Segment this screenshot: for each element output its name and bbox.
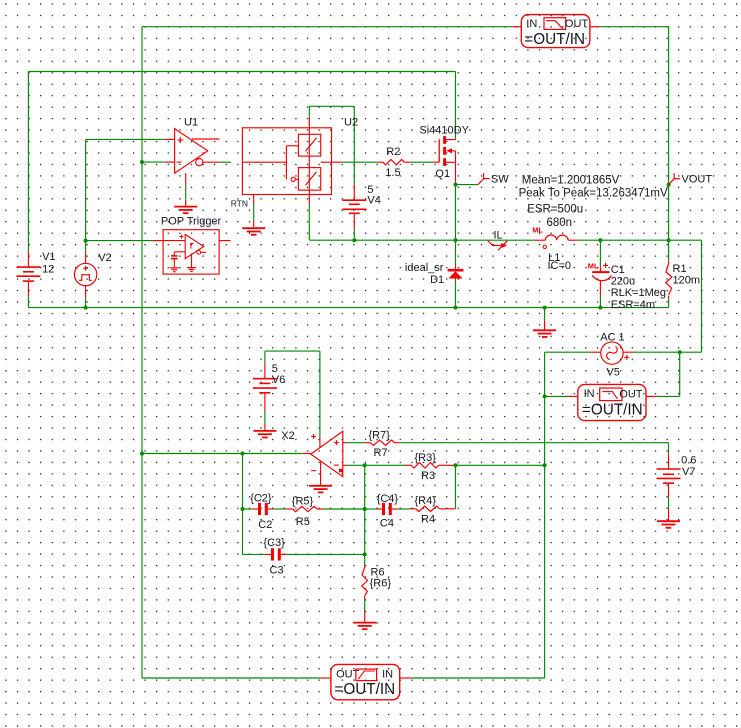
node C1 bottom junction [598,306,602,310]
ac source V5 lead right [623,351,634,353]
svg-text:Q1: Q1 [435,168,450,180]
label X2 [281,430,294,442]
svg-text:1.5: 1.5 [385,167,400,179]
label IL [494,230,503,242]
label R7 [374,447,388,459]
node X2 -input junction [363,463,367,467]
capacitor C2 leads [253,508,274,510]
label C1 [611,264,625,276]
transistor Q1 channel bar mid [443,147,446,155]
label {C2} [250,493,272,505]
svg-text:IN: IN [584,388,595,400]
svg-text:=OUT/IN: =OUT/IN [524,31,585,48]
svg-text:680n: 680n [547,217,573,229]
op-amp U1 top output stub [192,138,220,140]
svg-text:RTN: RTN [231,198,248,208]
label R5 [296,516,310,528]
label V7 [682,466,695,478]
svg-text:=OUT/IN: =OUT/IN [334,681,395,698]
ground rail stub [544,308,546,331]
transistor Q1 channel bar top [443,136,446,144]
label {R4} [415,495,437,507]
wire R2 to Q1 gate [410,161,432,163]
probe bottom icon [356,669,377,681]
capacitor C1 arc [592,275,611,280]
svg-text:{C3}: {C3} [263,537,285,549]
resistor R4 [416,506,440,511]
node C2 row left junction [241,507,245,511]
svg-text:R2: R2 [386,146,400,158]
wire D1 lower lead [455,281,457,308]
wire C4 row [365,508,409,510]
label C2 [258,519,272,531]
label {R5} [292,496,314,508]
svg-text:U1: U1 [184,116,198,128]
wire V6 top link [265,351,320,363]
wire X2 -in to node [347,464,365,466]
wire C1 bottom lead [599,296,601,308]
probe bottom label OUT [336,669,360,681]
probe pin VOUT [669,173,681,184]
POP trigger box [163,230,219,274]
switch block U2 box [242,128,331,195]
resistor R3 lead left [405,464,411,466]
POP trigger output bubble [197,250,201,254]
wire R6 bottom lead [364,596,366,623]
voltage source V2 pulse glyph [79,275,92,281]
op-amp U1 plus mark [177,137,183,143]
svg-text:{C2}: {C2} [250,493,272,505]
wire D1 upper lead [455,240,457,264]
node V4 bottom junction [352,238,356,242]
wire U2 pole down [309,205,354,241]
wire input rail y=71.5 [28,71,455,73]
svg-text:R4: R4 [421,513,435,525]
op-amp X2 supply minus mark [311,470,316,472]
op-amp U1 minus mark [177,161,182,163]
svg-text:C2: C2 [258,519,272,531]
label POP Trigger [161,216,222,228]
svg-text:=OUT/IN: =OUT/IN [582,401,643,418]
resistor R3 [411,463,438,468]
transistor Q1 source lead [455,162,457,182]
op-amp X2 supply stub red [319,437,321,448]
label IC=0 [548,260,572,272]
wire V7 mid lead [668,498,670,509]
svg-text:{R3}: {R3} [415,452,437,464]
probe top label =OUT/IN [524,31,585,48]
wire V7 top lead [668,443,670,454]
svg-text:C3: C3 [270,564,284,576]
svg-text:12: 12 [42,264,54,276]
op-amp U1 triangle [175,129,208,174]
value 220u [611,276,635,288]
svg-text:{R4}: {R4} [415,495,437,507]
capacitor C3 [273,548,280,560]
node C4 row junction [363,507,367,511]
label R2 [386,146,400,158]
wire U1 - input from x=142 [142,161,165,163]
svg-text:V2: V2 [98,252,111,264]
wire bottom probe net y=678 [142,677,545,679]
probe bottom label =OUT/IN [334,681,395,698]
node mid probe in junction [543,394,547,398]
resistor R7 lead right [395,442,400,444]
capacitor C3 leads [265,553,287,555]
svg-text:IN: IN [382,668,393,680]
value RLK=1Meg [611,287,666,299]
capacitor C1 top plate [592,271,609,273]
wire V2 bottom lead [85,297,87,308]
label 5 (V4) [367,184,373,196]
svg-text:Mean=1.2001865V: Mean=1.2001865V [522,174,620,186]
POP trigger output stub [201,251,206,253]
RTN stub [253,195,255,229]
wire V4 bottom lead [353,229,355,240]
ac source V5 sine [605,345,618,361]
wire U2 top link vertical [308,106,310,117]
wire Q1 drain vertical [455,72,457,140]
wire V2 vertical top [85,139,87,251]
label R6 [371,567,385,579]
label R3 [421,470,435,482]
probe box mid (=OUT/IN) [569,384,657,420]
label 0.6 [681,454,696,466]
probe top label IN [526,18,537,30]
voltage source V7 battery [657,469,681,483]
mini ground left in POP trigger [170,268,179,272]
probe pin SW [478,173,490,184]
voltage source V2 lead bottom [85,286,87,297]
wire mid probe right vertical [679,352,681,396]
probe top icon [544,18,566,30]
label C4 [380,518,394,530]
ground center [533,330,556,337]
inductor L1 dot marker [543,245,546,248]
label {C3} [263,537,285,549]
transistor Q1 body-source link [455,151,457,163]
wire AC row y=352.2 [545,351,702,353]
resistor R2 [383,160,404,165]
voltage source V6 lead bottom [264,393,266,431]
wire mid probe right [657,395,680,397]
wire V1 bottom to rail [27,296,29,308]
U2 lower switch square [298,168,320,191]
inductor L1 lead right [568,239,578,241]
label R1 [673,263,687,275]
inductor L1 lead left [535,239,546,241]
op-amp U1 ground stub [185,173,187,206]
svg-text:VOUT: VOUT [682,173,713,185]
wire POP trigger input y=240.6 [86,240,153,242]
wire X2 +in to R7 [347,442,365,444]
probe mid icon [600,388,622,401]
POP trigger mini cap lead [173,259,175,268]
label 680n [547,217,573,229]
ac source V5 circle [601,342,623,364]
ground under R6 [353,623,376,630]
voltage source V4 lead top [353,184,355,200]
voltage source V7 lead top [668,454,670,469]
op-amp U1 output lead [203,161,220,163]
op-amp U1 output bubble [196,159,203,166]
resistor R5 lead left [286,508,292,510]
voltage source V1 lead top [27,252,29,267]
probe mid label =OUT/IN [582,401,643,418]
capacitor C4 [384,503,391,515]
U2 upper switch blade [306,138,317,151]
wire R3 row right [456,464,545,466]
wire Q1 source down [455,183,457,241]
ground under V6 [253,431,276,438]
voltage source V1 battery [16,267,40,281]
U2 control to lower switch [295,178,298,180]
value ESR=4m [611,299,655,311]
resistor R5 lead right [317,508,323,510]
mini ground right in POP trigger [187,268,196,272]
POP trigger inner triangle [185,234,204,258]
resistor R7 [370,440,394,445]
voltage source V4 lead bottom [353,213,355,229]
svg-text:SW: SW [491,173,509,185]
POP trigger minus branch [174,252,185,256]
label ML (L1) [532,226,543,235]
node C1 top junction [598,238,602,242]
op-amp X2 -in lead [343,464,347,466]
op-amp X2 supply plus mark [311,434,316,439]
label D1 [430,274,444,286]
label Q1 [435,168,450,180]
svg-text:R7: R7 [374,447,388,459]
POP trigger input stub [153,240,164,242]
wire fb vertical x=242.5 [242,454,244,555]
label ML (C1) [588,261,599,270]
wire V1 top lead vertical [27,72,29,253]
probe mid label OUT [619,388,643,400]
svg-text:V6: V6 [272,374,285,386]
label Peak To Peak [519,188,668,200]
label V2 [98,252,111,264]
op-amp X2 inner plus [334,440,339,445]
probe mid label IN [584,388,595,400]
ac source V5 plus [624,355,629,360]
wire U2 output to R2 [342,161,378,163]
current arrow IL [488,241,508,251]
svg-text:RLK=1Meg: RLK=1Meg [611,287,666,299]
op-amp U1 - input lead [165,161,175,163]
transistor Q1 gate lead [433,161,440,163]
label {C4} [377,493,399,505]
wire VOUT vertical x=668.6 [668,27,670,241]
resistor R4 lead left [409,508,416,510]
svg-text:{R5}: {R5} [292,496,314,508]
resistor R7 lead left [365,442,371,444]
label {R6} [370,577,392,589]
label Si4410DY [419,125,469,137]
label SW [491,173,509,185]
op-amp U1 + input lead [165,138,175,140]
svg-text:R5: R5 [296,516,310,528]
ground under X2 [309,486,332,493]
voltage source V7 lead bottom [668,483,670,521]
node V2 bottom junction [84,306,88,310]
label ESR=500u [527,204,583,216]
svg-text:C4: C4 [380,518,394,530]
voltage source V6 battery [253,379,277,393]
label ideal_sr [405,262,444,274]
resistor R4 lead right [439,508,455,510]
svg-text:OUT: OUT [619,388,643,400]
wire C3 row [243,553,365,555]
node C3 row junction [363,552,367,556]
label AC 1 [600,332,624,344]
POP trigger inner flag [191,244,194,249]
wire X2 output rail y=453.5 [142,453,303,455]
svg-text:ML: ML [588,261,599,270]
node V2 top junction [84,239,88,243]
label V6 [272,374,285,386]
U2 control vertical [285,146,287,180]
node U1 -input junction [140,160,144,164]
label VOUT [682,173,713,185]
label L1 [548,252,560,264]
svg-text:Peak To Peak=13.263471mV: Peak To Peak=13.263471mV [519,188,668,200]
wire output loop right vertical [701,240,703,352]
voltage source V6 lead top [264,363,266,379]
label RTN [231,198,248,208]
value 12 [42,264,54,276]
POP trigger mini cap [171,256,178,259]
svg-text:ideal_sr: ideal_sr [405,262,444,274]
svg-text:V1: V1 [42,251,55,263]
voltage source V4 battery [342,200,366,213]
transistor Q1 body arrow [446,148,455,153]
svg-text:{R7}: {R7} [369,430,391,442]
label Mean [522,174,620,186]
node SW junction [454,183,458,187]
svg-text:AC 1: AC 1 [600,332,624,344]
node ground rail junction [543,306,547,310]
wire ground rail y=307.6 [28,307,668,309]
resistor R6 [362,567,368,596]
svg-text:R3: R3 [421,470,435,482]
transistor Q1 source tap [446,161,455,163]
wire left vertical x=142 (IN net) [141,27,143,678]
U2 output line [321,161,342,163]
wire X2 +supply vertical [319,351,321,437]
transistor Q1 channel bar bottom [443,158,446,166]
voltage source V2 lead top [85,252,87,264]
svg-text:IC=0: IC=0 [548,260,572,272]
wire mid probe left [545,395,569,397]
svg-text:Si4410DY: Si4410DY [419,125,469,137]
ground under V7 [657,521,680,528]
label 5 (V6) [272,363,278,375]
U2 control bubble [291,177,295,181]
label U2 [344,116,358,128]
resistor R5 [293,506,317,511]
op-amp X2 +in lead [343,442,347,444]
svg-text:0.6: 0.6 [681,454,696,466]
ground under U1 [174,207,197,214]
probe box top (=OUT/IN) [512,15,600,48]
POP trigger outside stub [219,240,231,242]
POP trigger inner input line [163,240,185,242]
node AC right junction [678,350,682,354]
wire sense vertical x=544.6 [544,352,546,678]
inductor L1 coil [545,235,568,240]
voltage source V1 lead bottom [27,281,29,296]
wire L1 row right [578,239,702,241]
op-amp X2 inner minus [334,464,339,466]
svg-text:{C4}: {C4} [377,493,399,505]
label {R7} [369,430,391,442]
svg-text:220u: 220u [611,276,635,288]
svg-text:V7: V7 [682,466,695,478]
node D1 bottom junction [454,306,458,310]
U2 control to upper switch [286,145,298,147]
op-amp X2 triangle [311,431,343,476]
svg-text:U2: U2 [344,116,358,128]
svg-text:R1: R1 [673,263,687,275]
U2 upper switch square [298,134,320,156]
label {R3} [415,452,437,464]
wire C2 row [243,508,365,510]
U2 pole line [308,117,310,205]
label V1 [42,251,55,263]
value 120m [673,274,701,286]
svg-text:IN: IN [526,18,537,30]
wire R1 bottom lead [668,296,670,308]
capacitor C4 leads [377,508,398,510]
svg-text:X2: X2 [281,430,294,442]
resistor R1 [666,264,672,295]
wire SW row y=240.2 [354,239,534,241]
svg-text:V5: V5 [606,367,619,379]
wire R3 row left [365,464,405,466]
op-amp X2 ground stub [320,462,322,486]
ac source V5 lead left [590,351,600,353]
wire SW probe stub [456,184,479,186]
label C3 [270,564,284,576]
wire U1 + input from x=85.6 [86,138,165,140]
resistor R2 lead right [404,161,410,163]
U2 control input line [242,161,286,163]
wire U1 output to U2 [219,161,230,163]
node R3/R4 junction [454,463,458,467]
svg-text:ML: ML [532,226,543,235]
transistor Q1 gate bar [438,139,440,162]
wire top rail right of probe [600,26,668,30]
POP trigger out ground lead [191,254,193,268]
probe bottom label IN [382,668,393,680]
label V5 [606,367,619,379]
transistor Q1 drain tap [446,139,455,141]
svg-text:V4: V4 [367,195,380,207]
capacitor C1 lead [599,281,601,296]
node D1 top junction [454,238,458,242]
svg-text:D1: D1 [430,274,444,286]
label R4 [421,513,435,525]
svg-text:OUT: OUT [565,18,589,30]
wire top probe net (top rail y=26.7) [142,26,512,28]
capacitor C2 [260,503,267,515]
svg-text:ESR=4m: ESR=4m [611,299,655,311]
svg-text:POP Trigger: POP Trigger [161,216,222,228]
wire R3-R4 link vertical [455,465,457,509]
wire C1 top lead [599,240,601,272]
wire fb mid vertical x=364.7 [364,465,366,568]
